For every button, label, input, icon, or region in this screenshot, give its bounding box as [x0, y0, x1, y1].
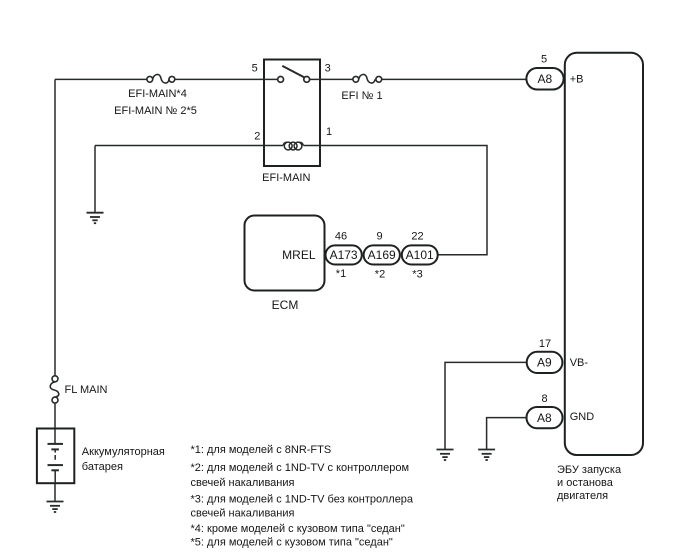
svg-text:A169: A169 [368, 248, 396, 262]
connector A173 [326, 245, 362, 264]
connector A9 (VB-) [527, 352, 563, 373]
fuse EFI-MAIN*4 / EFI-MAIN No 2*5 [147, 74, 175, 83]
svg-text:3: 3 [325, 63, 331, 75]
svg-text:EFI-MAIN*4: EFI-MAIN*4 [128, 88, 187, 100]
svg-text:FL MAIN: FL MAIN [65, 384, 108, 396]
wire: fuse EFI No 1 to connector A8 (+B) [382, 78, 527, 80]
svg-text:свечей накаливания: свечей накаливания [191, 508, 295, 520]
wire: left vertical rail from top wire down to FL MAIN [54, 79, 56, 375]
svg-text:Аккумуляторная: Аккумуляторная [82, 446, 165, 458]
svg-text:5: 5 [252, 63, 258, 75]
svg-text:+B: +B [570, 74, 584, 86]
ECU box (ЭБУ запуска и останова двигателя) [565, 53, 643, 455]
ground: relay coil [87, 213, 104, 224]
connector A8 (GND) [527, 407, 563, 428]
ground: VB- [437, 450, 454, 461]
svg-text:1: 1 [326, 126, 332, 138]
svg-text:GND: GND [570, 411, 595, 423]
svg-text:ECM: ECM [272, 298, 299, 312]
wire: FL MAIN to battery [54, 403, 56, 444]
relay EFI-MAIN coil [264, 142, 320, 150]
wire: relay pin 3 to fuse EFI No 1 [320, 78, 353, 80]
svg-text:*1: *1 [336, 268, 346, 280]
wire: A9 VB- to ground [445, 362, 527, 449]
svg-text:MREL: MREL [282, 248, 316, 262]
svg-text:8: 8 [541, 393, 547, 405]
svg-text:*2: *2 [375, 269, 385, 281]
wire: vertical drop to ground at relay coil [94, 146, 96, 213]
fuse EFI No 1 [353, 74, 382, 83]
ground: GND [478, 450, 495, 461]
svg-text:VB-: VB- [570, 357, 589, 369]
svg-text:A8: A8 [537, 72, 552, 86]
connector A101 [402, 245, 438, 264]
svg-text:*4: кроме моделей с кузовом ти: *4: кроме моделей с кузовом типа "седан" [191, 523, 405, 535]
svg-text:EFI-MAIN № 2*5: EFI-MAIN № 2*5 [114, 105, 197, 117]
svg-text:EFI № 1: EFI № 1 [341, 90, 382, 102]
ground: battery [47, 502, 64, 513]
svg-text:A101: A101 [406, 248, 434, 262]
connector A8 (+B) [526, 68, 563, 90]
svg-text:5: 5 [541, 54, 547, 66]
svg-text:9: 9 [376, 230, 382, 242]
svg-text:и останова: и останова [557, 477, 614, 489]
svg-text:17: 17 [539, 338, 551, 350]
relay EFI-MAIN switch contacts [264, 66, 320, 82]
wire: relay pin 2 to ground drop [95, 145, 264, 147]
wire: battery positive feed, top horizontal from left rail to relay [55, 78, 264, 80]
svg-text:свечей накаливания: свечей накаливания [191, 477, 295, 489]
connector A169 [364, 245, 400, 264]
wire: A8 GND to ground [487, 418, 527, 450]
svg-text:двигателя: двигателя [557, 490, 608, 502]
svg-text:22: 22 [411, 230, 423, 242]
fusible link FL MAIN [50, 376, 59, 403]
relay EFI-MAIN box [264, 60, 320, 167]
wire: battery negative to ground [54, 483, 56, 501]
svg-text:EFI-MAIN: EFI-MAIN [262, 172, 310, 184]
svg-text:*3: для моделей с 1ND-TV без к: *3: для моделей с 1ND-TV без контроллера [191, 494, 414, 506]
svg-text:*5: для моделей с кузовом типа: *5: для моделей с кузовом типа "седан" [191, 537, 393, 549]
ECM box [245, 216, 325, 291]
svg-text:*1: для моделей с 8NR-FTS: *1: для моделей с 8NR-FTS [191, 444, 332, 456]
svg-text:A8: A8 [537, 411, 552, 425]
svg-text:46: 46 [335, 230, 347, 242]
battery cell plates [48, 444, 64, 483]
svg-text:батарея: батарея [82, 461, 123, 473]
svg-text:A173: A173 [330, 248, 358, 262]
svg-text:A9: A9 [537, 356, 552, 370]
svg-text:*2: для моделей с 1ND-TV с кон: *2: для моделей с 1ND-TV с контроллером [191, 462, 410, 474]
svg-text:ЭБУ запуска: ЭБУ запуска [557, 464, 622, 476]
svg-text:*3: *3 [412, 269, 422, 281]
battery (Аккумуляторная батарея) box [37, 429, 74, 484]
wire: relay pin 1 to ECM MREL connectors [320, 146, 487, 255]
svg-text:2: 2 [254, 131, 260, 143]
